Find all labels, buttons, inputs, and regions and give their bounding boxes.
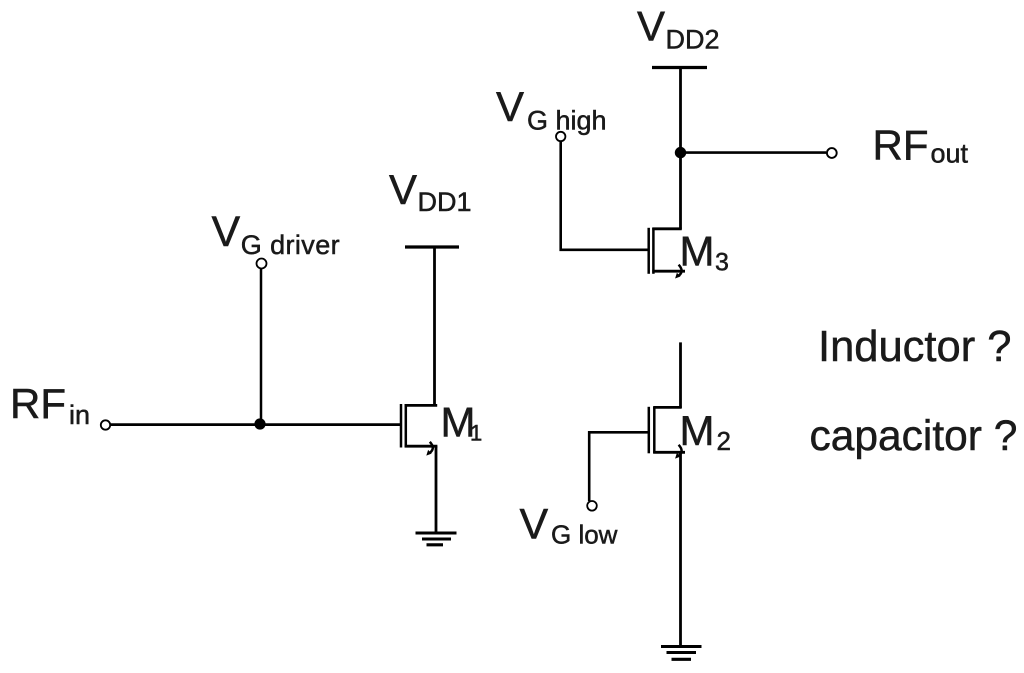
svg-text:V: V [496, 83, 524, 130]
label V_G driver [212, 208, 341, 260]
ground below M1 [416, 533, 457, 545]
label RF_in [10, 380, 90, 430]
svg-text:Inductor ?: Inductor ? [818, 323, 1011, 371]
transistor M1 [401, 404, 437, 456]
label V_DD2 [637, 3, 720, 55]
svg-text:1: 1 [470, 421, 482, 446]
junction output node [675, 147, 686, 158]
label M3 [680, 227, 729, 276]
terminal RF_in [101, 420, 110, 429]
junction node M1 gate [254, 418, 265, 429]
wire V_G high to M3 gate [561, 142, 648, 250]
terminal V_G driver [257, 259, 267, 269]
wire V_DD2 to output node [679, 69, 682, 153]
label V_G high [496, 83, 607, 136]
svg-text:V: V [212, 208, 241, 256]
terminal V_G low [587, 501, 597, 511]
svg-text:2: 2 [717, 426, 731, 456]
svg-text:DD2: DD2 [666, 25, 720, 55]
svg-text:M: M [680, 227, 715, 274]
wire output node to RF_out terminal [681, 151, 827, 154]
terminal RF_out [827, 148, 837, 158]
svg-text:G driver: G driver [241, 230, 340, 260]
svg-text:RF: RF [873, 121, 929, 168]
svg-text:G low: G low [551, 520, 618, 550]
wire M1 source to ground [435, 446, 438, 532]
label M2 [680, 407, 731, 456]
terminal V_G high [556, 132, 565, 141]
label RF_out [873, 121, 969, 168]
svg-text:in: in [69, 400, 90, 430]
wire V_DD1 to M1 drain [433, 248, 436, 406]
label V_DD1 [389, 166, 472, 217]
svg-text:V: V [637, 3, 665, 50]
label V_G low [520, 501, 618, 550]
transistor M3 [649, 228, 685, 279]
wire floating node to M2 drain [679, 342, 682, 408]
svg-text:out: out [931, 139, 969, 169]
power rail V_DD1 [405, 245, 459, 248]
svg-text:RF: RF [10, 380, 66, 427]
svg-text:G high: G high [527, 106, 607, 136]
wire RF_in to M1 gate node [110, 423, 400, 426]
svg-text:V: V [389, 166, 417, 213]
wire output node to M3 drain [679, 153, 682, 230]
transistor M2 [649, 407, 685, 459]
svg-text:capacitor ?: capacitor ? [810, 413, 1018, 460]
wire M2 gate to V_G low [589, 432, 649, 501]
svg-text:M: M [680, 407, 715, 454]
ground below M2 [661, 647, 702, 660]
wire V_G driver to gate node [260, 269, 263, 424]
power rail V_DD2 [652, 66, 707, 69]
svg-text:3: 3 [715, 248, 729, 276]
svg-text:V: V [520, 501, 549, 549]
wire M2 source to ground [679, 452, 682, 645]
label M1 [441, 399, 483, 446]
svg-text:DD1: DD1 [418, 187, 472, 217]
